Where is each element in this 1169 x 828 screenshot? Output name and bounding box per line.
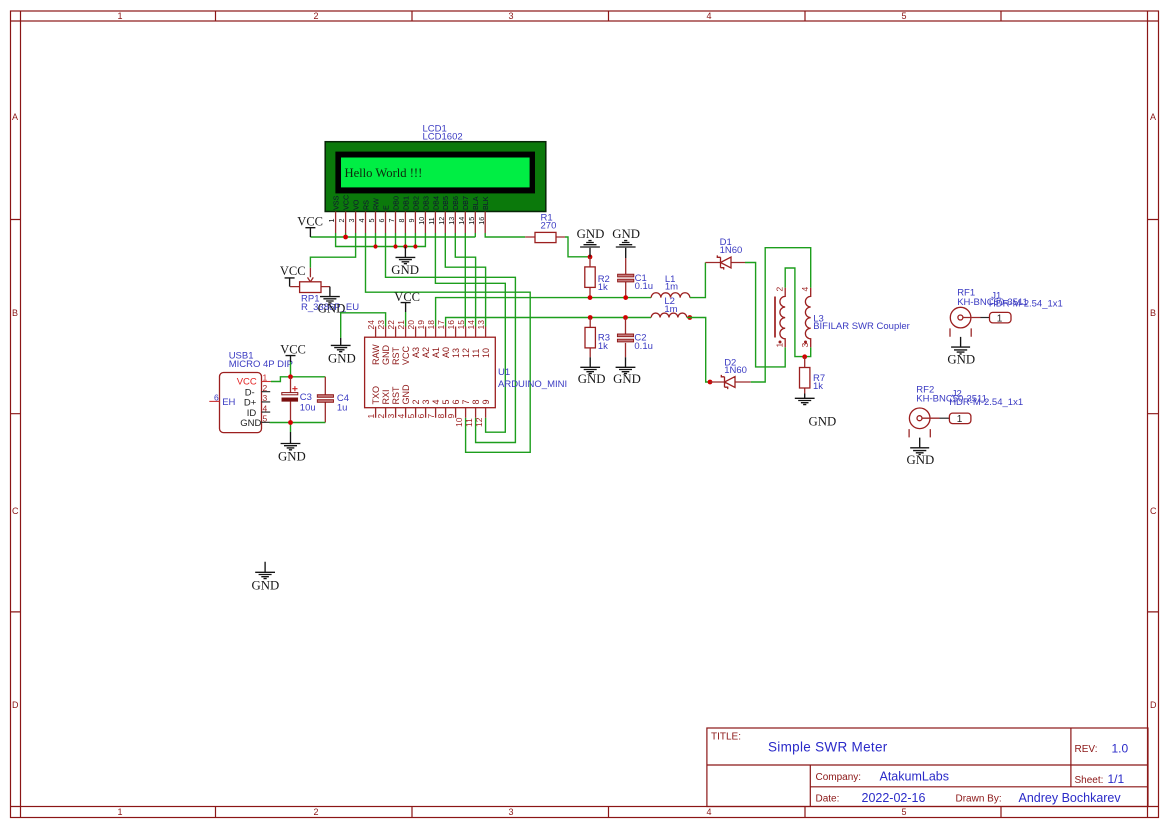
svg-text:13: 13 (476, 320, 486, 330)
svg-text:15: 15 (456, 320, 466, 330)
svg-text:9: 9 (407, 219, 416, 223)
svg-text:GND: GND (252, 579, 280, 593)
svg-text:GND: GND (401, 384, 411, 405)
VCC symbol at U1 pin21 (401, 303, 411, 312)
svg-text:GND: GND (577, 227, 605, 241)
U1 top inner pin labels (371, 344, 491, 365)
junction dot C3 top (288, 374, 293, 379)
svg-text:10: 10 (481, 348, 491, 358)
svg-text:4: 4 (431, 399, 441, 404)
svg-text:GND: GND (947, 352, 975, 366)
L3 pin number 3 with dot (800, 341, 810, 348)
svg-text:1: 1 (997, 313, 1003, 324)
VCC symbol at LCD (305, 228, 315, 237)
svg-text:19: 19 (416, 320, 426, 330)
svg-text:Andrey Bochkarev: Andrey Bochkarev (1019, 791, 1122, 805)
svg-text:DB0: DB0 (391, 196, 400, 210)
svg-text:D-: D- (245, 387, 255, 398)
ground G12 standalone (255, 562, 275, 579)
wire LCD pin16 to R1 (485, 233, 525, 237)
op-amp U1 ARDUINO_MINI body (365, 337, 496, 408)
svg-text:3: 3 (263, 393, 268, 403)
header J2 (949, 413, 971, 425)
USB1 pin 6 lead (209, 400, 219, 402)
svg-text:D: D (12, 700, 19, 710)
svg-text:9: 9 (481, 399, 491, 404)
U1 bottom inner pin labels (371, 384, 491, 405)
svg-text:5: 5 (263, 414, 268, 424)
svg-text:GND: GND (381, 345, 391, 366)
wire LCD pin4 RS staircase to U1 pin10 (366, 233, 531, 452)
ground G8 below C2 (616, 357, 636, 373)
svg-text:20: 20 (406, 320, 416, 330)
svg-text:1u: 1u (337, 403, 348, 414)
svg-text:HDR-M-2.54_1x1: HDR-M-2.54_1x1 (949, 397, 1023, 408)
svg-text:D: D (1150, 700, 1157, 710)
wire L3 pin3 to junction (805, 347, 811, 356)
svg-text:6: 6 (214, 393, 219, 403)
svg-text:22: 22 (386, 320, 396, 330)
svg-text:1: 1 (957, 414, 963, 425)
wire VCC to U1 pin21 (405, 312, 407, 327)
junction dot L3 pin3 R7 (802, 354, 807, 359)
svg-text:Hello World !!!: Hello World !!! (345, 166, 423, 180)
svg-text:DB3: DB3 (421, 196, 430, 210)
svg-text:5: 5 (901, 11, 906, 21)
wire LCD pin6 E staircase to U1 pin11 (386, 233, 516, 443)
svg-text:1k: 1k (598, 282, 608, 293)
ground G2 above C1 (616, 241, 636, 258)
inductor L1 (651, 293, 690, 298)
wire D1 to L3 pin1 (745, 263, 785, 367)
svg-text:TXO: TXO (371, 386, 381, 405)
svg-text:8: 8 (471, 399, 481, 404)
frame row ticks left (11, 220, 21, 612)
svg-text:DB5: DB5 (441, 196, 450, 210)
U1 bottom pin numbers (366, 414, 484, 428)
svg-text:5: 5 (441, 399, 451, 404)
ground G7 below R3 (580, 357, 600, 373)
ground G11 below RF2 (910, 438, 929, 455)
frame row labels left (12, 112, 19, 710)
U1 bottom pin leads (376, 408, 486, 418)
wire USB1 pin5 to C3 C4 bottom (270, 422, 325, 432)
svg-text:C: C (12, 506, 19, 516)
resistor R3 (585, 318, 595, 358)
svg-text:2: 2 (411, 399, 421, 404)
svg-text:1: 1 (327, 219, 336, 223)
svg-text:GND: GND (613, 372, 641, 386)
svg-text:0.1u: 0.1u (635, 281, 654, 292)
frame column ticks bottom (216, 807, 1002, 818)
svg-text:VCC: VCC (237, 377, 257, 388)
svg-text:6: 6 (451, 399, 461, 404)
svg-text:TITLE:: TITLE: (711, 732, 741, 743)
wire VCC to C3 C4 top (271, 362, 325, 382)
capacitor C3 polarized (282, 377, 298, 423)
svg-text:14: 14 (457, 217, 466, 225)
svg-text:1: 1 (117, 11, 122, 21)
junction dot R2 bottom (588, 295, 593, 300)
VCC symbol at RP1 (285, 278, 295, 287)
wire main line A to U1 pin18 (436, 298, 651, 327)
wire U1 pin23 GND to ground G5 (341, 313, 386, 338)
svg-text:E: E (381, 205, 390, 210)
USB1 pin 2-5 leads (262, 392, 271, 423)
svg-text:2: 2 (337, 219, 346, 223)
junction dot C3 bottom (288, 420, 293, 425)
svg-text:1: 1 (263, 373, 268, 383)
svg-text:2: 2 (376, 414, 386, 419)
svg-text:5: 5 (901, 807, 906, 817)
svg-text:10u: 10u (300, 403, 316, 414)
svg-text:1k: 1k (813, 381, 823, 392)
svg-text:RXI: RXI (381, 389, 391, 404)
U1 top pin numbers (366, 320, 486, 330)
svg-text:VO: VO (352, 199, 361, 210)
svg-text:3: 3 (386, 414, 396, 419)
svg-text:1N60: 1N60 (724, 365, 747, 376)
frame column ticks top (216, 11, 1002, 21)
svg-text:BLA: BLA (471, 196, 480, 210)
svg-text:16: 16 (477, 217, 486, 225)
svg-text:VCC: VCC (280, 342, 306, 356)
svg-text:ARDUINO_MINI: ARDUINO_MINI (498, 379, 567, 390)
inductor L2 (651, 313, 687, 317)
svg-text:A0: A0 (441, 347, 451, 358)
svg-text:12: 12 (474, 417, 484, 427)
svg-text:14: 14 (466, 320, 476, 330)
svg-text:DB6: DB6 (451, 196, 460, 210)
svg-text:GND: GND (578, 372, 606, 386)
connector RF1 BNC (950, 307, 990, 336)
svg-text:11: 11 (464, 418, 474, 427)
LCD1 pin leads 1-16 (336, 212, 486, 234)
svg-text:1.0: 1.0 (1112, 742, 1129, 756)
svg-text:DB2: DB2 (411, 196, 420, 210)
svg-text:4: 4 (396, 414, 406, 419)
svg-text:2: 2 (263, 383, 268, 393)
svg-text:1N60: 1N60 (720, 245, 743, 256)
svg-text:REV:: REV: (1075, 744, 1098, 755)
svg-text:1: 1 (117, 807, 122, 817)
svg-text:24: 24 (366, 320, 376, 330)
LCD1 pin name labels (332, 195, 491, 210)
svg-text:VCC: VCC (342, 195, 351, 210)
wire L1 to D1 (690, 263, 706, 298)
svg-text:15: 15 (467, 217, 476, 225)
wire main line B to U1 pin17 (446, 318, 651, 327)
svg-text:4: 4 (263, 403, 268, 413)
svg-text:VCC: VCC (401, 345, 411, 365)
svg-text:RST: RST (391, 346, 401, 365)
svg-text:Date:: Date: (816, 794, 840, 805)
wire D2 to L3 pin4 (751, 248, 811, 382)
wire row A VCC to LCD pin15 (310, 233, 475, 237)
connector USB1 body (220, 373, 262, 433)
svg-text:A3: A3 (411, 347, 421, 358)
svg-text:6: 6 (377, 219, 386, 223)
transformer L3 right winding (805, 288, 810, 347)
header J1 (990, 312, 1012, 324)
wire LCD pin12 staircase to U1 pin13 (445, 233, 485, 327)
svg-text:10: 10 (454, 417, 464, 427)
svg-text:VCC: VCC (394, 290, 420, 304)
svg-text:C: C (1150, 506, 1157, 516)
svg-text:B: B (12, 308, 18, 318)
svg-text:7: 7 (387, 219, 396, 223)
transformer L3 left winding (780, 288, 785, 347)
L3 pin number 1 with dot (775, 341, 785, 348)
svg-text:7: 7 (426, 414, 436, 419)
svg-text:13: 13 (451, 348, 461, 358)
svg-text:16: 16 (446, 320, 456, 330)
svg-text:2022-02-16: 2022-02-16 (862, 791, 926, 805)
svg-text:3: 3 (347, 219, 356, 223)
svg-text:Company:: Company: (816, 772, 862, 783)
svg-text:11: 11 (471, 349, 481, 358)
junction dot C2 top (623, 315, 628, 320)
svg-text:AtakumLabs: AtakumLabs (880, 770, 949, 784)
USB1 inner pin labels (222, 377, 261, 429)
svg-text:18: 18 (426, 320, 436, 330)
VCC symbol above USB1 (286, 356, 296, 362)
svg-text:RAW: RAW (371, 344, 381, 365)
svg-text:10: 10 (417, 217, 426, 225)
USB1 pin 1 lead (262, 381, 271, 383)
svg-text:GND: GND (907, 453, 935, 467)
ground G1 above R2 (580, 241, 600, 257)
wire LCD pin14 to U1 pin15 (464, 233, 466, 327)
svg-text:1/1: 1/1 (1108, 772, 1125, 786)
junction dot R2 top (588, 255, 593, 260)
svg-text:2: 2 (313, 807, 318, 817)
ground G4 at RP1 (320, 287, 340, 303)
U1 top pin leads (376, 327, 486, 338)
wire L3 pin2 to junction (785, 268, 805, 357)
svg-text:4: 4 (706, 11, 711, 21)
svg-text:DB4: DB4 (431, 196, 440, 210)
svg-text:4: 4 (706, 807, 711, 817)
svg-text:12: 12 (461, 348, 471, 358)
svg-text:VSS: VSS (332, 195, 341, 210)
svg-text:6: 6 (416, 414, 426, 419)
svg-text:13: 13 (447, 217, 456, 225)
svg-text:Simple SWR Meter: Simple SWR Meter (768, 740, 888, 755)
svg-text:HDR-M-2.54_1x1: HDR-M-2.54_1x1 (989, 299, 1063, 310)
svg-text:GND: GND (278, 449, 306, 463)
junction dot L2 right (687, 315, 692, 320)
LCD1 module body (325, 142, 546, 212)
resistor R2 (585, 257, 595, 298)
svg-text:3: 3 (508, 807, 513, 817)
svg-text:A1: A1 (431, 347, 441, 358)
svg-text:5: 5 (367, 219, 376, 223)
svg-text:MICRO 4P DIP: MICRO 4P DIP (229, 359, 293, 370)
diode D1 1N60 (705, 255, 745, 269)
capacitor C4 (317, 377, 333, 423)
svg-text:DB7: DB7 (461, 196, 470, 210)
junction dot at LCD pin2 (343, 235, 348, 240)
wire LCD pin3 to RP1 wiper (310, 233, 355, 268)
svg-text:RS: RS (361, 200, 370, 210)
wire LCD pin11 staircase to U1 pin12 (435, 233, 505, 432)
svg-text:2: 2 (775, 287, 785, 292)
svg-text:4: 4 (800, 287, 810, 292)
svg-text:3: 3 (421, 399, 431, 404)
svg-text:2: 2 (313, 11, 318, 21)
svg-text:RST: RST (391, 386, 401, 405)
diode D2 1N60 (710, 375, 751, 389)
capacitor C1 (618, 258, 634, 298)
svg-text:7: 7 (461, 399, 471, 404)
svg-text:Sheet:: Sheet: (1075, 775, 1104, 786)
svg-text:5: 5 (406, 414, 416, 419)
wire R1 to GND junction (565, 237, 590, 257)
junction dot C1 bottom (623, 295, 628, 300)
junction dot at D2 anode (708, 380, 713, 385)
svg-text:C3: C3 (300, 392, 312, 403)
potentiometer RP1 (290, 268, 330, 293)
svg-text:EH: EH (222, 397, 235, 408)
junction dot R3 top (588, 315, 593, 320)
svg-text:1k: 1k (598, 341, 608, 352)
USB1 pin numbers (214, 373, 268, 424)
frame row labels right (1150, 112, 1157, 710)
svg-text:BLK: BLK (481, 196, 490, 210)
svg-text:U1: U1 (498, 367, 510, 378)
svg-text:GND: GND (809, 415, 837, 429)
wire row B LCD pins 1-10 (336, 233, 426, 247)
resistor R7 (800, 357, 810, 394)
svg-text:BIFILAR SWR Coupler: BIFILAR SWR Coupler (813, 321, 910, 332)
title block frame (707, 728, 1148, 807)
svg-text:4: 4 (357, 219, 366, 223)
ground G5 (331, 338, 351, 352)
svg-text:VCC: VCC (280, 264, 306, 278)
connector RF2 BNC (909, 408, 949, 437)
svg-text:270: 270 (541, 221, 557, 232)
svg-text:B: B (1150, 308, 1156, 318)
wire L2 to D2 (687, 318, 711, 383)
frame row ticks right (1148, 220, 1159, 612)
svg-text:8: 8 (397, 219, 406, 223)
svg-text:VCC: VCC (297, 214, 323, 228)
frame column labels top (117, 11, 906, 21)
ground G6 below USB1 (281, 432, 301, 450)
svg-text:GND: GND (328, 352, 356, 366)
svg-text:3: 3 (508, 11, 513, 21)
svg-text:17: 17 (436, 320, 446, 330)
svg-text:23: 23 (376, 320, 386, 330)
svg-text:1: 1 (366, 414, 376, 419)
resistor R1 (525, 232, 565, 242)
svg-text:DB1: DB1 (401, 196, 410, 210)
wire LCD pin13 staircase to U1 pin14 (455, 233, 475, 327)
svg-text:1m: 1m (664, 304, 677, 315)
svg-text:GND: GND (391, 263, 419, 277)
svg-text:Drawn By:: Drawn By: (956, 794, 1002, 805)
svg-text:A: A (12, 112, 18, 122)
svg-text:21: 21 (396, 320, 406, 330)
svg-text:8: 8 (436, 414, 446, 419)
svg-text:GND: GND (240, 418, 261, 429)
transformer L3 core bar (774, 297, 776, 338)
frame column labels bottom (117, 807, 906, 817)
svg-text:LCD1602: LCD1602 (423, 132, 463, 143)
svg-text:A: A (1150, 112, 1156, 122)
junction dots row B (373, 244, 417, 248)
ground G3 below row B (396, 247, 416, 264)
svg-text:11: 11 (427, 217, 436, 224)
svg-text:0.1u: 0.1u (634, 341, 653, 352)
svg-text:1m: 1m (665, 282, 678, 293)
ground G9 below R7 (795, 394, 815, 405)
svg-text:A2: A2 (421, 347, 431, 358)
LCD1 pin numbers 1-16 (327, 217, 486, 225)
svg-text:12: 12 (437, 217, 446, 225)
svg-text:GND: GND (612, 227, 640, 241)
capacitor C2 (617, 318, 633, 358)
svg-text:RW: RW (371, 198, 380, 210)
ground G10 below RF1 (951, 337, 970, 354)
